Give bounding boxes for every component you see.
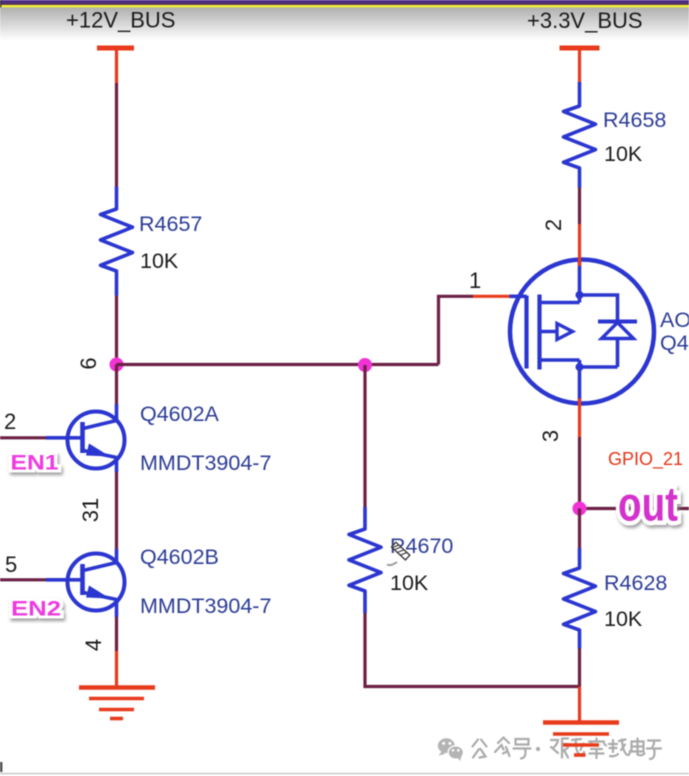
top yellow line xyxy=(0,5,689,8)
svg-text:+12V_BUS: +12V_BUS xyxy=(66,8,175,33)
watermark text xyxy=(473,738,662,760)
svg-text:MMDT3904-7: MMDT3904-7 xyxy=(140,594,271,618)
transistor Q4602A xyxy=(46,404,125,472)
svg-text:+3.3V_BUS: +3.3V_BUS xyxy=(527,8,643,33)
svg-text:R4658: R4658 xyxy=(603,108,666,132)
wire maroon node6 to Q4602A collector xyxy=(115,365,118,405)
svg-text:10K: 10K xyxy=(604,142,643,166)
svg-text:EN1: EN1 xyxy=(11,452,59,475)
wire maroon gate riser xyxy=(439,296,474,364)
resistor R4628 xyxy=(564,548,596,649)
bottom grey line xyxy=(0,773,689,775)
svg-text:MMDT3904-7: MMDT3904-7 xyxy=(140,451,271,475)
power bar +3.3V xyxy=(560,46,600,51)
wire red +3.3V stub xyxy=(578,48,581,82)
wire maroon EN1 lead xyxy=(0,436,46,439)
mosfet Q4 body xyxy=(510,260,655,404)
junction node 6 dot xyxy=(110,358,124,372)
ground left xyxy=(79,688,155,719)
svg-text:Q4: Q4 xyxy=(660,331,689,355)
svg-text:5: 5 xyxy=(5,552,17,577)
top purple bar xyxy=(0,0,689,3)
watermark wechat icon xyxy=(438,738,464,761)
svg-text:R4657: R4657 xyxy=(139,212,202,236)
bottom left tick xyxy=(0,762,2,772)
svg-text:6: 6 xyxy=(76,357,101,369)
resistor R4657 xyxy=(101,187,133,296)
resistor R4658 xyxy=(564,82,596,188)
wire maroon source to out node xyxy=(578,437,581,509)
svg-text:10K: 10K xyxy=(604,607,643,631)
svg-text:2: 2 xyxy=(4,409,16,434)
power bar +12V xyxy=(97,46,134,51)
resistor R4670 xyxy=(349,507,381,613)
wire maroon out to right edge xyxy=(580,507,689,510)
svg-text:R4628: R4628 xyxy=(604,571,667,595)
wire red to ground left xyxy=(115,651,118,688)
svg-text:31: 31 xyxy=(78,498,103,522)
svg-text:10K: 10K xyxy=(140,249,179,273)
wire maroon out node to R4628 xyxy=(578,509,581,549)
wire maroon node to R4670 xyxy=(363,365,366,507)
junction middle dot xyxy=(358,358,372,372)
wire maroon R4658 to Q4 xyxy=(578,188,581,225)
wire maroon R4628 to bottom xyxy=(578,649,581,687)
svg-text:EN2: EN2 xyxy=(11,598,61,621)
wire maroon between transistors xyxy=(115,472,118,549)
wire red gate segment xyxy=(473,295,510,298)
svg-text:10K: 10K xyxy=(390,571,429,595)
wire maroon Q4602B emitter down xyxy=(115,617,118,651)
svg-text:AO: AO xyxy=(660,308,689,332)
wire maroon R4657 to node6 xyxy=(115,296,118,365)
svg-text:1: 1 xyxy=(469,268,481,293)
wire maroon R4670 to bottom rail xyxy=(365,613,580,687)
wire red +12V stub xyxy=(115,48,118,83)
mouse cursor hatched stick xyxy=(392,542,410,560)
svg-text:3: 3 xyxy=(538,430,563,442)
ground right xyxy=(543,723,619,756)
svg-text:Q4602A: Q4602A xyxy=(140,402,220,426)
svg-text:4: 4 xyxy=(81,639,106,651)
svg-text:Q4602B: Q4602B xyxy=(140,545,219,569)
transistor Q4602B xyxy=(46,549,125,617)
top grey gradient band xyxy=(0,8,689,41)
wire maroon EN2 lead xyxy=(0,578,46,581)
wire maroon horizontal node6 to gate corner xyxy=(117,363,439,366)
cursor swoosh xyxy=(387,562,397,565)
svg-text:2: 2 xyxy=(541,219,566,231)
svg-text:GPIO_21: GPIO_21 xyxy=(608,449,683,470)
svg-text:out: out xyxy=(618,479,678,532)
wire red source xyxy=(578,399,581,438)
wire red to ground right xyxy=(578,687,581,723)
wire maroon +12V to R4657 xyxy=(115,83,118,187)
junction out dot xyxy=(573,502,587,516)
wire red drain xyxy=(578,224,581,266)
